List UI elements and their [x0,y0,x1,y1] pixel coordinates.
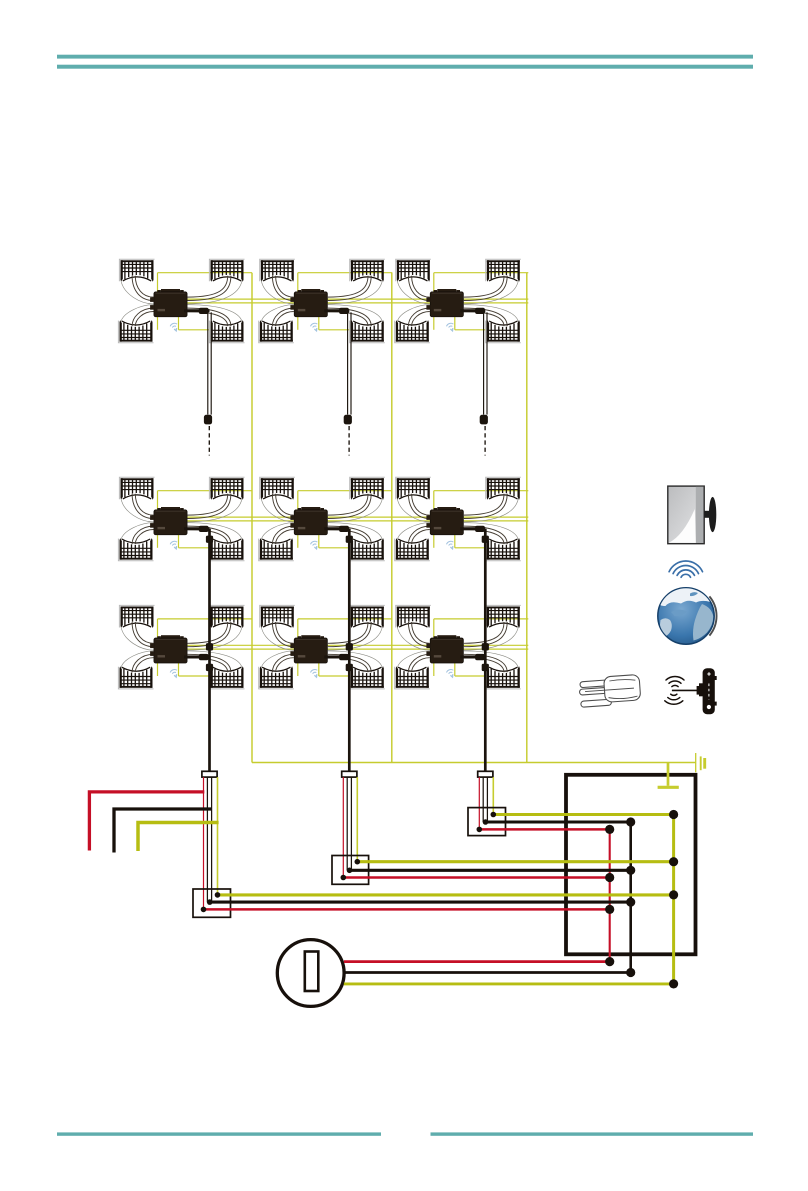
microinverter unit H2 (row 3, col 2) [259,605,385,689]
branch terminal connector, col3 [478,771,493,777]
wifi antenna icon [665,668,717,714]
AC connector stub, row2 col3 [460,527,485,530]
wires from junction box 2 to buses [357,860,673,863]
ground tee into load center [667,763,670,786]
cable coupler upper, row3 col3 [482,643,489,650]
AC connector stub, row3 col1 [184,655,210,658]
PE bonding bus horizontal [252,762,696,764]
cable end connector, row1 col3 [480,415,488,425]
black bus vertical [629,822,632,973]
wires from junction box 3 to buses [493,813,673,816]
ground electrode symbol [696,753,705,772]
trunk wiring outline, unit row2 col2 [252,491,392,548]
cable coupler, row2 col3 [482,536,489,543]
feed wires to junction box 2 [343,777,357,877]
dashed continuation, col2 [348,426,350,456]
internet globe icon [658,587,717,649]
AC connector stub, row1 col3 [460,309,485,312]
cable coupler lower, row3 col1 [206,664,213,671]
AC branch cable, col1 [208,529,211,772]
trunk connector icon [579,674,641,707]
trunk wiring outline, unit row1 col3 [392,273,529,330]
trunk wiring outline, unit row3 col2 [252,619,392,676]
cable coupler upper, row3 col2 [346,643,353,650]
feed wires to junction box 3 [479,777,493,829]
AC trunk vertical, branch 1 [251,273,253,763]
footer rule right [431,1132,754,1135]
trunk wiring outline, unit row2 col3 [392,491,529,548]
AC connector stub, row3 col2 [324,655,349,658]
AC drop cable (double line), row1 col3 [483,312,485,414]
microinverter unit F3 (row 2, col 3) [395,477,521,561]
branch terminal connector, col2 [342,771,357,777]
trunk wiring outline, unit row2 col1 [158,491,253,548]
cable coupler upper, row3 col1 [206,643,213,650]
AC connector stub, row1 col2 [324,309,349,312]
AC branch cable, col2 [348,529,351,772]
AC drop cable (double line), row1 col1 [207,312,209,414]
microinverter unit I3 (row 3, col 3) [395,605,521,689]
service wire N (black) to other branches [114,809,212,853]
yellow bus vertical [672,815,675,984]
feed wires to junction box 1 [204,777,218,909]
service wire L1 (red) to other branches [89,792,204,851]
cable end connector, row1 col1 [204,415,212,425]
bus connection dots [669,890,678,899]
junction box 2 [332,856,369,885]
service wire PE (yellow) to other branches [138,823,219,852]
cable end connector, row1 col2 [344,415,352,425]
AC connector stub, row3 col3 [460,655,485,658]
dashed continuation, col1 [208,426,210,456]
header rule top [57,55,753,59]
AC connector stub, row2 col1 [184,527,210,530]
junction box 3 [468,808,506,836]
microinverter unit E2 (row 2, col 2) [259,477,385,561]
red bus vertical [609,829,611,961]
utility meter [277,940,344,1007]
microinverter unit A1 (row 1, col 1) [118,259,244,343]
cable coupler, row2 col1 [206,536,213,543]
AC connector stub, row1 col1 [184,309,210,312]
footer rule left [57,1132,381,1135]
branch terminal connector, col1 [202,771,217,777]
trunk wiring outline, unit row1 col1 [158,273,253,330]
meter wires to buses [344,960,610,963]
junction box 1 [193,889,231,917]
trunk wiring outline, unit row3 col3 [392,619,529,676]
microinverter unit C3 (row 1, col 3) [395,259,521,343]
junction box 3 connection dots [491,812,497,818]
AC trunk vertical, branch 2 [391,273,393,763]
monitoring display icon [668,486,717,544]
dashed continuation, col3 [484,426,486,456]
cable coupler, row2 col2 [346,536,353,543]
trunk wiring outline, unit row1 col2 [252,273,392,330]
AC trunk vertical, branch 3 [526,273,528,763]
load center enclosure [566,775,696,955]
header rule bottom [57,65,753,69]
cable coupler lower, row3 col3 [482,664,489,671]
cable coupler lower, row3 col2 [346,664,353,671]
microinverter unit D1 (row 2, col 1) [118,477,244,561]
wires from junction box 1 to buses [218,893,674,896]
microinverter unit B2 (row 1, col 2) [259,259,385,343]
microinverter unit G1 (row 3, col 1) [118,605,244,689]
junction box 1 connection dots [215,892,221,898]
wifi waves icon [669,561,702,577]
AC connector stub, row2 col2 [324,527,349,530]
junction box 2 connection dots [355,859,361,865]
AC branch cable, col3 [484,529,487,772]
AC drop cable (double line), row1 col2 [347,312,349,414]
trunk wiring outline, unit row3 col1 [158,619,253,676]
